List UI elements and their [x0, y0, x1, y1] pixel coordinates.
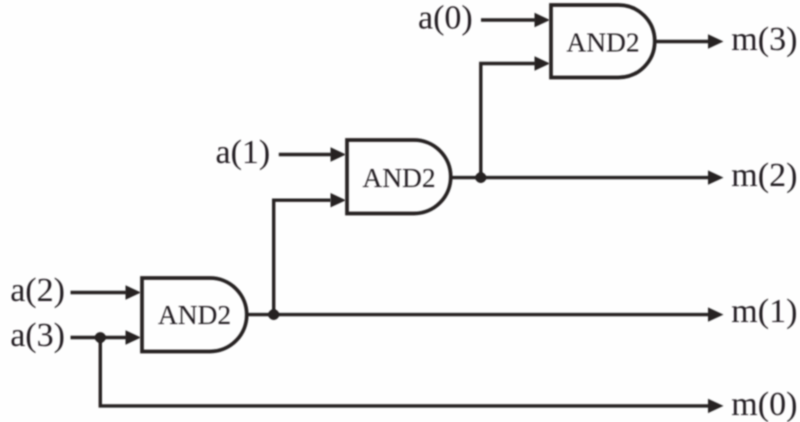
arrowhead m(2)	[708, 170, 724, 184]
arrowhead m(1)	[708, 307, 724, 321]
svg-text:a(2): a(2)	[10, 272, 65, 309]
junction dot node-B (U1 output)	[268, 309, 279, 320]
svg-text:AND2: AND2	[362, 162, 435, 193]
svg-text:m(0): m(0)	[731, 386, 797, 422]
arrowhead into U2 pin2	[331, 193, 347, 207]
arrowhead m(0)	[708, 399, 724, 413]
junction dot node-A (U2 output)	[475, 172, 486, 183]
and-gate U3 (top, AND2)	[551, 5, 655, 78]
svg-text:m(3): m(3)	[731, 21, 797, 58]
svg-text:m(1): m(1)	[731, 293, 797, 330]
wire a(2) to U1 pin1	[71, 291, 128, 294]
svg-text:a(3): a(3)	[10, 317, 65, 354]
wire a(3) to U1 pin2	[71, 336, 128, 339]
wire U2 output to m(2) arrow	[450, 176, 710, 179]
wire node-B vertical (U1 output junction up to U2 pin2 elbow)	[274, 200, 331, 314]
svg-text:m(2): m(2)	[731, 157, 797, 194]
arrowhead into U3 pin2	[535, 56, 551, 70]
arrowhead into U3 pin1	[535, 13, 551, 27]
svg-text:AND2: AND2	[158, 299, 231, 330]
arrowhead into U2 pin1	[331, 147, 347, 161]
svg-text:a(1): a(1)	[216, 134, 271, 171]
and-gate U1 (bottom, AND2)	[142, 278, 247, 352]
wire U3 output to m(3) arrow	[655, 40, 711, 43]
svg-text:a(0): a(0)	[418, 0, 473, 37]
and-gate U2 (middle, AND2)	[347, 140, 451, 214]
wire a(3) branch down to m(0) run	[100, 338, 710, 406]
arrowhead into U1 pin2	[126, 330, 142, 344]
wire U1 output to m(1) arrow	[246, 313, 710, 316]
wire a(1) to U2 pin1	[279, 153, 332, 156]
wire node-A vertical (U2 output junction up to U3 pin2 elbow)	[481, 64, 536, 178]
svg-text:AND2: AND2	[566, 26, 639, 57]
junction dot a(3) branch	[95, 332, 106, 343]
arrowhead into U1 pin1	[126, 285, 142, 299]
arrowhead m(3)	[708, 34, 724, 48]
wire a(0) to U3 pin1	[481, 18, 536, 21]
